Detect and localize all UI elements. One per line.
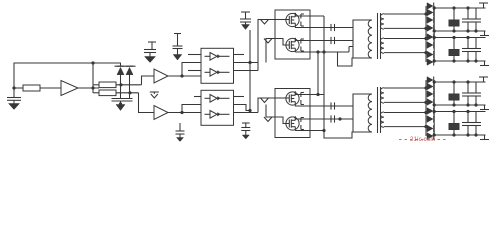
diode D5 [427,17,433,24]
wire U4 pin3 right [233,70,258,72]
wire cap to primary T1b [336,40,353,42]
diode D21 [427,91,433,98]
capacitor C5 decoupling [241,11,250,13]
wire Q3 source pin [295,105,336,107]
capacitor C2 clamp [112,98,133,100]
node R top [452,6,455,9]
driver internal buffer [205,97,211,99]
wire Q3 gate [275,97,289,99]
capacitor C blocking T1a [330,24,332,31]
node rectifier input [424,37,427,40]
resistor R3 [93,92,99,94]
capacitor C blocking T2b [330,115,332,122]
wire input top feedback rail [14,63,121,88]
node cathode bus [433,59,436,62]
wire node B to U3 [139,93,155,113]
wire output rail top [434,37,485,39]
transformer T1 primary loop [353,20,372,58]
node R top [452,36,455,39]
wire Q3 drain pin [295,91,324,94]
node lower module pin1 [316,93,319,96]
wire output rail top [434,81,485,83]
ground arrow Q4 gate return [264,117,272,122]
node C1 top [466,36,469,39]
node C1 bottom [466,29,469,32]
wire Q1 drain pin [295,13,324,16]
node R bottom [452,59,455,62]
node R bottom [452,103,455,106]
capacitor filter 2 [475,82,477,93]
node feedback rail [91,61,94,64]
ground output 2 [484,61,486,66]
wire U4 pin1 stub [188,54,201,56]
node R top [452,110,455,113]
wire cathode bus [433,80,435,136]
driver internal buffer [205,55,211,57]
node dc bus lower pin4 [322,129,325,132]
wire Q2 gate [275,39,289,46]
transistor Q4 [286,117,299,130]
node A [119,83,122,86]
wire secondary w1 top [384,13,427,15]
capacitor filter 2 [475,112,477,123]
node rectifier input [424,12,427,15]
driver U5 box [201,90,234,125]
transistor Q3 [286,92,299,105]
wire dc bus link [323,16,325,131]
diode D23 [427,108,433,115]
node cathode bus [433,133,436,136]
diode D22 [427,99,433,106]
transformer T2 core [377,87,379,133]
wire U5 pin3 to Q3 gate [258,98,275,113]
capacitor filter 1 [467,38,469,49]
wire U4 pin3 to Q1 gate [258,20,275,71]
watermark text [410,137,436,143]
node C2 ground [119,102,122,105]
node cathode bus [433,29,436,32]
node cathode bus [433,6,436,9]
node R bottom [452,29,455,32]
capacitor C3 with rail stub [148,41,156,43]
wire series link between modules [317,52,319,95]
node dc bus pin4 [322,50,325,53]
diode D19 [427,77,433,84]
node rectifier input [424,27,427,30]
wire clamp top bar [115,65,136,67]
node cathode bus [433,36,436,39]
node C1 bottom [466,59,469,62]
wire U4 pin1 right stub [233,54,244,56]
wire U4 pin2 to Q2 gate [266,39,275,63]
wire output rail bottom [434,30,485,32]
wire cap to primary T2a [336,105,353,107]
capacitor filter 1 [467,112,469,123]
ground clamp [116,105,125,111]
node C1 bottom [466,133,469,136]
wire cap to primary T2b [336,118,353,120]
wire R2 row to node A [116,84,142,86]
capacitor C7 bypass under U5 [179,123,181,131]
diode D6 [427,25,433,32]
node B [128,91,131,94]
wire source return T2 [324,131,353,139]
op-amp U1 input buffer [61,81,78,96]
wire U5 pin1 stub [194,96,201,98]
capacitor C6 bypass [242,122,250,124]
wire gate bus vertical [249,30,251,111]
transistor Q1 [286,13,299,26]
node upper module pin4 [316,50,319,53]
capacitor filter 1 [467,82,469,93]
watermark red dashes [399,139,446,141]
wire U4 pin2 to bus [233,62,258,64]
wire node A to U2 [142,76,155,85]
node cathode bus [433,80,436,83]
wire output rail top [434,7,485,9]
wire R3 row to node B [116,92,139,94]
power rail symbol [483,77,485,82]
ground C7 [177,138,184,142]
wire U5 pin2 right [233,105,250,111]
wire secondary w1 top [384,87,427,89]
wire output rail bottom [434,134,485,136]
wire U3 output to U5 [168,112,201,114]
diode D10 [427,59,433,66]
driver internal buffer [205,113,211,115]
wire feedback vertical [92,63,94,93]
capacitor C blocking T1b [330,37,332,44]
wire secondary w2 top [384,38,427,40]
wire rectifier anode feeder [425,6,427,62]
ground C3 [145,57,156,63]
diode D7 [427,34,433,41]
node cathode bus [433,103,436,106]
capacitor filter 2 [475,38,477,49]
diode D25 [427,125,433,132]
node bus pin2 [248,61,251,64]
wire secondary w1 bottom [384,27,427,29]
node rectifier input [424,51,427,54]
wire U5 pin1 right stub [233,96,244,98]
wire output rail top [434,111,485,113]
capacitor filter 1 [467,8,469,19]
resistor R2 [93,84,99,86]
node C2 bottom [474,133,477,136]
wire output rail bottom [434,104,485,106]
ground arrow Q1 gate return [261,20,269,25]
ground arrow above U3 [150,91,159,93]
wire Q2 drain pin [295,38,336,41]
op-amp U2 upper buffer [154,69,168,83]
resistor snubber [453,38,455,50]
node U3 output [180,111,183,114]
diode D2 clamp [126,65,133,67]
node input junction [12,86,15,89]
wire secondary w2 top [384,112,427,114]
wire cathode bus [433,6,435,62]
diode D3 [427,3,433,10]
transformer T1 primary winding [368,20,372,58]
diode D24 [427,116,433,123]
diode D9 [427,51,433,58]
ground output 2 [484,135,486,140]
wire source return T1 [338,52,354,66]
resistor snubber [453,8,455,20]
resistor snubber [453,112,455,124]
transformer T2 primary loop [353,94,372,132]
node bus lower pin2 [248,109,251,112]
transformer T1 secondary winding 1 [380,14,384,29]
wire U5 pin2 to Q4 gate [266,105,275,118]
transformer T2 primary winding [368,94,372,132]
transformer T1 core [377,13,379,59]
switch module box (Q3,Q4) [275,89,310,138]
power rail symbol [483,3,485,8]
wire output rail bottom [434,60,485,62]
wire U1 output [78,87,99,89]
wire secondary w1 bottom [384,101,427,103]
ground arrow Q3 gate return [261,98,269,103]
wire diode columns [120,75,122,99]
node rectifier input [424,101,427,104]
ground arrow Q2 gate return [264,39,272,44]
wire secondary w2 bottom [384,52,427,54]
wire U2 output branch up [182,63,201,77]
node U2 output [180,74,183,77]
ground C4 arrow [173,55,182,61]
wire cap to primary T1a [336,27,353,29]
capacitor filter 2 [475,8,477,19]
node rectifier input [424,111,427,114]
resistor snubber [453,82,455,94]
wire Q4 source pin [295,130,324,132]
wire input to R1 [14,87,23,89]
ground C6 [242,135,249,139]
ground input [9,104,20,110]
wire U2 output to U4 [168,75,201,77]
wire U4 pin3 stub [188,70,201,72]
transformer T2 secondary winding 2 [380,112,384,127]
node cathode bus [433,110,436,113]
node C1 top [466,6,469,9]
diode D4 [427,9,433,16]
wire Q1 gate [275,19,289,21]
op-amp U3 lower buffer [154,106,168,120]
node C2 bottom [474,59,477,62]
diode D8 [427,42,433,49]
node C2 bottom [474,29,477,32]
node rectifier input [424,125,427,128]
ground C5 arrow [242,25,250,30]
wire U3 output branch up [182,105,201,113]
transformer T1 secondary winding 2 [380,38,384,53]
diode D26 [427,133,433,140]
driver internal buffer [205,71,211,73]
ground output 1 [484,105,486,110]
wire U5 pin3 right [233,112,258,114]
node R bottom [452,133,455,136]
node C1 top [466,80,469,83]
wire rectifier anode feeder [425,80,427,136]
diode D20 [427,83,433,90]
transistor Q2 [286,38,299,51]
node rectifier input [424,86,427,89]
wire Q1 source pin [295,26,336,28]
transformer T2 secondary winding 1 [380,88,384,103]
diode D1 clamp [120,63,122,66]
switch module box (Q1,Q2) [275,10,310,59]
node R top [452,80,455,83]
wire Q2 source pin [295,51,349,53]
node U1 output [91,86,94,89]
capacitor C1 input [13,88,15,98]
wire Q4 gate [275,117,289,124]
driver U4 box [201,48,234,83]
node C1 top [466,110,469,113]
wire Q4 drain pin [295,116,336,119]
ground output 1 [484,31,486,36]
capacitor C4 bypass [174,33,181,35]
wire secondary w2 bottom [384,126,427,128]
node C1 bottom [466,103,469,106]
capacitor C blocking T2a [330,102,332,109]
node C2 bottom [474,103,477,106]
wire R1 to U1 [40,87,61,89]
resistor R1 [23,85,40,91]
